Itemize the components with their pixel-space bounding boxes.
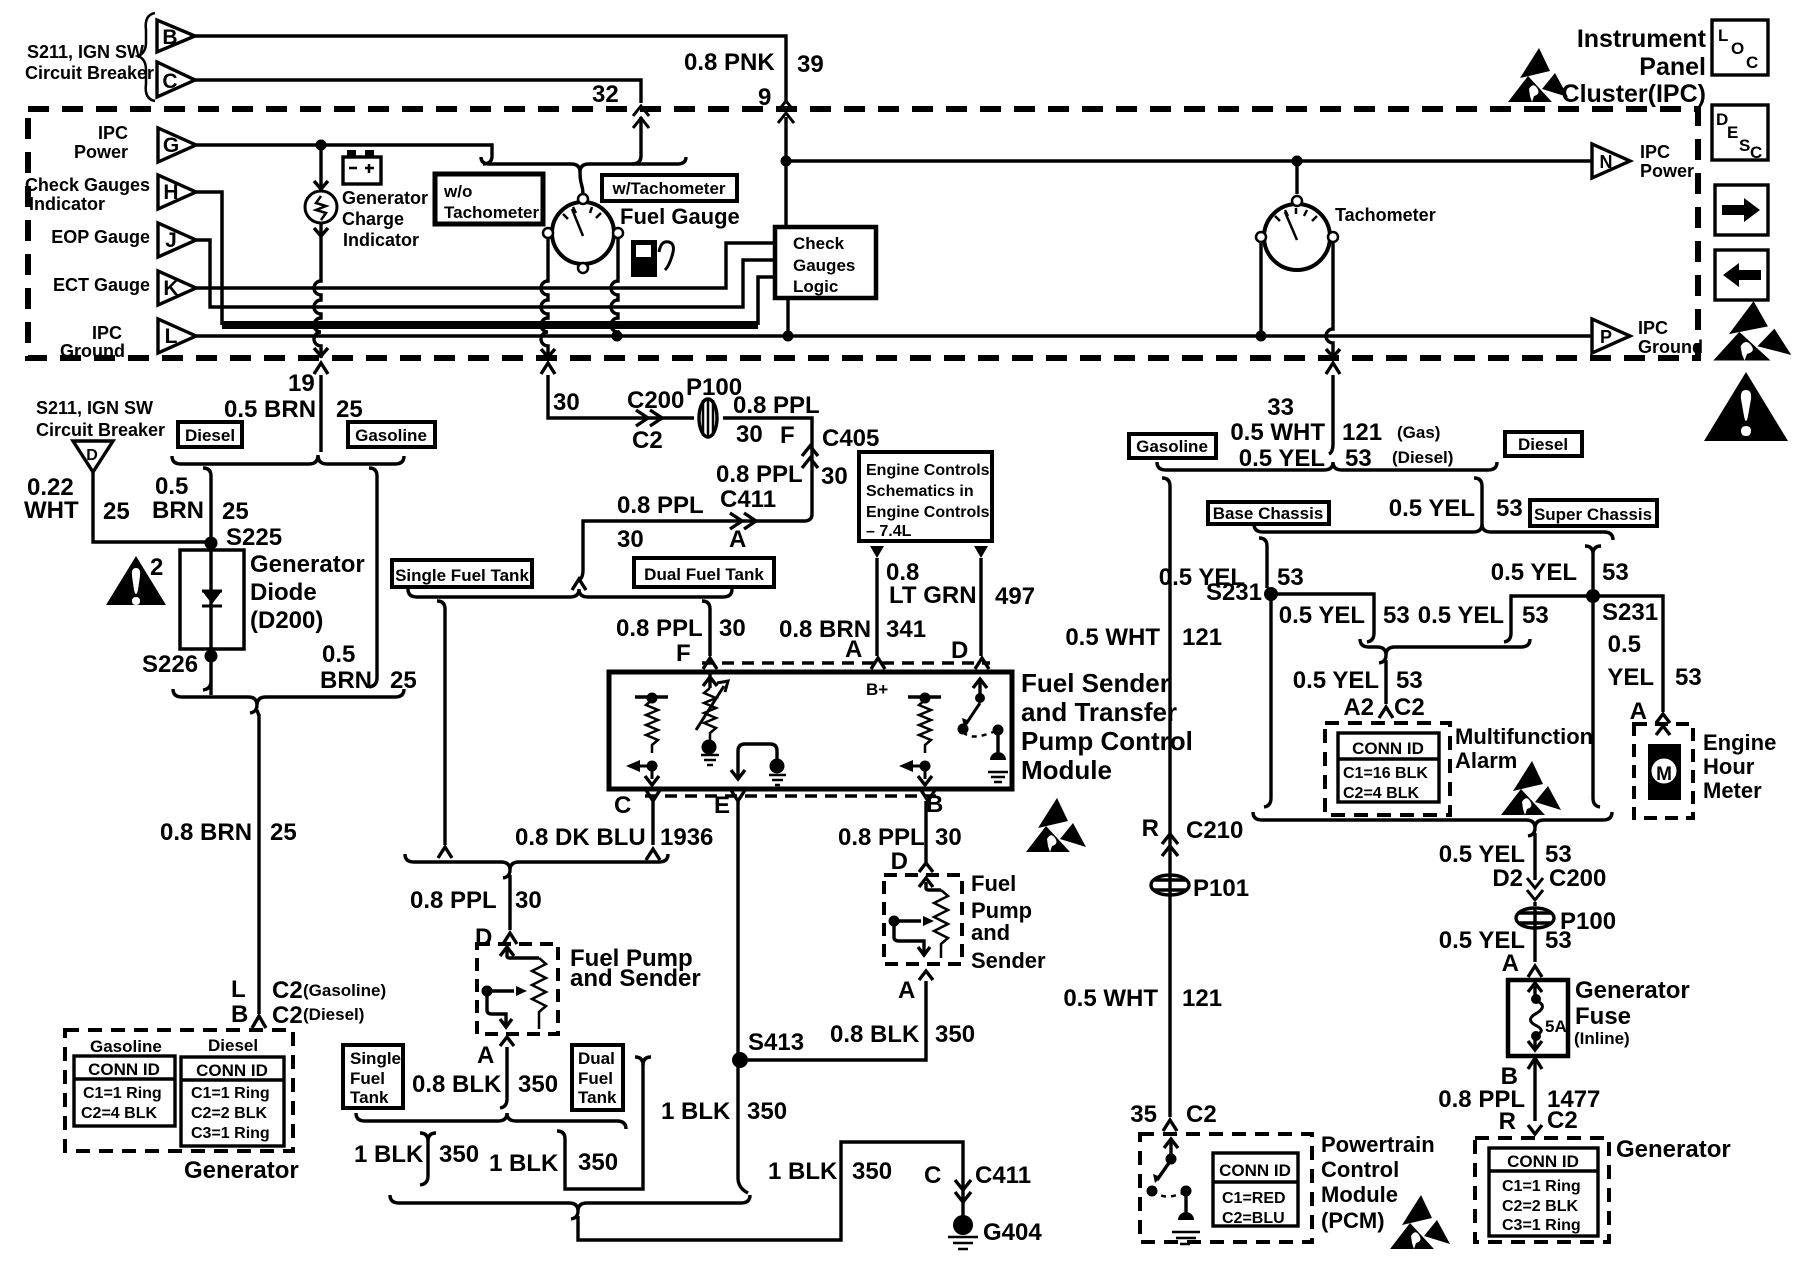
svg-text:S225: S225 bbox=[226, 524, 282, 551]
svg-text:30: 30 bbox=[553, 389, 580, 416]
svg-text:C2=4 BLK: C2=4 BLK bbox=[1343, 785, 1419, 802]
svg-text:Diesel: Diesel bbox=[185, 426, 235, 445]
svg-text:32: 32 bbox=[592, 81, 619, 108]
svg-text:Schematics in: Schematics in bbox=[866, 483, 974, 500]
svg-text:F: F bbox=[676, 640, 691, 667]
svg-text:0.5 YEL: 0.5 YEL bbox=[1239, 445, 1325, 472]
svg-text:C2=4 BLK: C2=4 BLK bbox=[81, 1105, 157, 1122]
svg-text:19: 19 bbox=[288, 370, 315, 397]
svg-text:(D200): (D200) bbox=[250, 607, 323, 634]
svg-text:121: 121 bbox=[1342, 419, 1382, 446]
svg-text:53: 53 bbox=[1545, 927, 1572, 954]
svg-text:Module: Module bbox=[1321, 1182, 1398, 1207]
svg-text:C200: C200 bbox=[1549, 865, 1606, 892]
svg-text:K: K bbox=[163, 277, 178, 300]
svg-text:30: 30 bbox=[736, 421, 763, 448]
svg-text:IPC: IPC bbox=[1640, 142, 1670, 162]
svg-text:0.8 BRN: 0.8 BRN bbox=[160, 819, 252, 846]
svg-text:Dual Fuel Tank: Dual Fuel Tank bbox=[644, 565, 764, 584]
svg-text:C210: C210 bbox=[1186, 817, 1243, 844]
svg-text:350: 350 bbox=[578, 1149, 618, 1176]
svg-text:C2: C2 bbox=[1394, 694, 1425, 721]
svg-text:0.8 PPL: 0.8 PPL bbox=[838, 824, 925, 851]
svg-text:C2: C2 bbox=[1547, 1107, 1578, 1134]
svg-text:Tachometer: Tachometer bbox=[1335, 205, 1436, 225]
svg-text:0.5 YEL: 0.5 YEL bbox=[1491, 559, 1577, 586]
svg-text:0.8 PPL: 0.8 PPL bbox=[716, 461, 803, 488]
svg-text:0.5: 0.5 bbox=[322, 641, 355, 668]
svg-text:121: 121 bbox=[1182, 985, 1222, 1012]
svg-text:C: C bbox=[1746, 53, 1758, 72]
svg-text:E: E bbox=[714, 792, 730, 819]
svg-text:CONN ID: CONN ID bbox=[1507, 1152, 1579, 1171]
svg-text:0.5 YEL: 0.5 YEL bbox=[1293, 667, 1379, 694]
svg-text:G404: G404 bbox=[983, 1219, 1042, 1246]
svg-text:Alarm: Alarm bbox=[1455, 748, 1517, 773]
svg-text:S: S bbox=[1739, 136, 1750, 155]
svg-text:Module: Module bbox=[1021, 755, 1112, 785]
svg-text:B: B bbox=[162, 26, 177, 49]
svg-text:S211, IGN SW: S211, IGN SW bbox=[27, 42, 144, 62]
svg-text:(Gasoline): (Gasoline) bbox=[303, 981, 386, 1000]
svg-text:BRN: BRN bbox=[152, 497, 204, 524]
svg-text:Gasoline: Gasoline bbox=[355, 426, 427, 445]
svg-text:Ground: Ground bbox=[1638, 337, 1703, 357]
svg-text:A: A bbox=[845, 636, 862, 663]
svg-text:C2=2 BLK: C2=2 BLK bbox=[1502, 1198, 1578, 1215]
svg-text:P: P bbox=[1600, 327, 1612, 347]
svg-text:ECT Gauge: ECT Gauge bbox=[53, 275, 150, 295]
svg-text:Cluster(IPC): Cluster(IPC) bbox=[1562, 80, 1706, 108]
svg-text:25: 25 bbox=[336, 396, 363, 423]
svg-text:Diesel: Diesel bbox=[1518, 435, 1568, 454]
svg-text:A: A bbox=[729, 526, 746, 553]
svg-text:Single Fuel Tank: Single Fuel Tank bbox=[395, 566, 529, 585]
svg-text:53: 53 bbox=[1522, 602, 1549, 629]
svg-text:C: C bbox=[162, 70, 177, 93]
svg-text:53: 53 bbox=[1602, 559, 1629, 586]
svg-text:S226: S226 bbox=[142, 651, 198, 678]
svg-text:Charge: Charge bbox=[342, 209, 404, 229]
svg-text:Indicator: Indicator bbox=[343, 230, 419, 250]
svg-text:C: C bbox=[924, 1162, 941, 1189]
svg-text:1 BLK: 1 BLK bbox=[661, 1098, 731, 1125]
svg-text:C: C bbox=[614, 792, 631, 819]
svg-text:1936: 1936 bbox=[660, 824, 713, 851]
svg-text:C1=1 Ring: C1=1 Ring bbox=[191, 1085, 270, 1102]
svg-text:Dual: Dual bbox=[578, 1049, 615, 1068]
svg-text:IPC: IPC bbox=[1638, 318, 1668, 338]
svg-text:C2: C2 bbox=[632, 427, 663, 454]
svg-text:C411: C411 bbox=[975, 1162, 1031, 1189]
svg-text:C1=RED: C1=RED bbox=[1222, 1190, 1286, 1207]
svg-text:Generator: Generator bbox=[342, 188, 428, 208]
svg-text:F: F bbox=[780, 422, 795, 449]
svg-text:S211, IGN SW: S211, IGN SW bbox=[36, 398, 153, 418]
svg-text:S231: S231 bbox=[1206, 579, 1262, 606]
svg-text:Logic: Logic bbox=[793, 277, 838, 296]
svg-text:Ground: Ground bbox=[60, 341, 125, 361]
svg-text:CONN ID: CONN ID bbox=[1219, 1161, 1291, 1180]
svg-text:Fuel Gauge: Fuel Gauge bbox=[620, 204, 740, 229]
svg-text:0.8 PPL: 0.8 PPL bbox=[410, 887, 497, 914]
svg-text:Check: Check bbox=[793, 234, 845, 253]
svg-text:P101: P101 bbox=[1193, 875, 1249, 902]
svg-text:(Gas): (Gas) bbox=[1397, 423, 1440, 442]
svg-text:(Diesel): (Diesel) bbox=[303, 1005, 364, 1024]
svg-text:0.8 PPL: 0.8 PPL bbox=[616, 615, 703, 642]
svg-text:E: E bbox=[1727, 123, 1738, 142]
svg-text:Diesel: Diesel bbox=[208, 1036, 258, 1055]
svg-text:Power: Power bbox=[1640, 161, 1694, 181]
svg-text:35: 35 bbox=[1130, 1101, 1157, 1128]
svg-text:30: 30 bbox=[935, 824, 962, 851]
svg-text:Circuit Breaker: Circuit Breaker bbox=[36, 420, 165, 440]
svg-text:0.8 PPL: 0.8 PPL bbox=[617, 492, 704, 519]
svg-text:497: 497 bbox=[995, 583, 1035, 610]
svg-text:0.5 YEL: 0.5 YEL bbox=[1279, 602, 1365, 629]
svg-text:R: R bbox=[1142, 815, 1159, 842]
svg-text:D: D bbox=[891, 848, 908, 875]
svg-text:H: H bbox=[163, 181, 178, 204]
svg-text:25: 25 bbox=[270, 819, 297, 846]
svg-text:53: 53 bbox=[1496, 495, 1523, 522]
svg-text:53: 53 bbox=[1675, 664, 1702, 691]
svg-text:C1=1 Ring: C1=1 Ring bbox=[83, 1085, 162, 1102]
svg-text:B: B bbox=[926, 791, 943, 818]
svg-text:30: 30 bbox=[515, 887, 542, 914]
svg-text:G: G bbox=[163, 134, 179, 157]
svg-text:30: 30 bbox=[617, 526, 644, 553]
svg-text:L: L bbox=[1718, 26, 1728, 45]
svg-text:0.5 BRN: 0.5 BRN bbox=[224, 396, 316, 423]
svg-text:S413: S413 bbox=[748, 1029, 804, 1056]
svg-text:350: 350 bbox=[852, 1158, 892, 1185]
svg-text:0.8 DK BLU: 0.8 DK BLU bbox=[515, 824, 646, 851]
svg-text:0.5 WHT: 0.5 WHT bbox=[1063, 985, 1158, 1012]
svg-text:C200: C200 bbox=[627, 387, 684, 414]
svg-text:C2: C2 bbox=[272, 1002, 303, 1029]
svg-text:350: 350 bbox=[747, 1098, 787, 1125]
svg-text:C1=1 Ring: C1=1 Ring bbox=[1502, 1178, 1581, 1195]
svg-text:S231: S231 bbox=[1602, 599, 1658, 626]
svg-text:Generator: Generator bbox=[1616, 1136, 1731, 1163]
svg-text:25: 25 bbox=[390, 667, 417, 694]
svg-text:Engine: Engine bbox=[1703, 730, 1776, 755]
svg-text:53: 53 bbox=[1277, 564, 1304, 591]
svg-text:1 BLK: 1 BLK bbox=[489, 1150, 559, 1177]
svg-text:w/Tachometer: w/Tachometer bbox=[611, 179, 725, 198]
svg-text:A: A bbox=[477, 1042, 494, 1069]
svg-text:0.5 WHT: 0.5 WHT bbox=[1230, 419, 1325, 446]
svg-text:(Diesel): (Diesel) bbox=[1392, 448, 1453, 467]
svg-text:Generator: Generator bbox=[1575, 977, 1690, 1004]
svg-text:C3=1 Ring: C3=1 Ring bbox=[191, 1125, 270, 1142]
svg-text:EOP Gauge: EOP Gauge bbox=[51, 227, 150, 247]
svg-text:53: 53 bbox=[1383, 602, 1410, 629]
svg-text:Indicator: Indicator bbox=[29, 194, 105, 214]
svg-text:53: 53 bbox=[1345, 445, 1372, 472]
svg-text:C1=16 BLK: C1=16 BLK bbox=[1343, 765, 1428, 782]
svg-text:0.5 YEL: 0.5 YEL bbox=[1418, 602, 1504, 629]
svg-text:30: 30 bbox=[821, 463, 848, 490]
svg-text:A: A bbox=[1502, 950, 1519, 977]
svg-text:BRN: BRN bbox=[320, 667, 372, 694]
svg-text:Generator: Generator bbox=[250, 551, 365, 578]
svg-text:C405: C405 bbox=[822, 425, 879, 452]
svg-text:Hour: Hour bbox=[1703, 754, 1755, 779]
svg-text:350: 350 bbox=[518, 1071, 558, 1098]
svg-text:N: N bbox=[1600, 152, 1613, 172]
svg-text:w/o: w/o bbox=[443, 182, 472, 201]
svg-text:Fuel: Fuel bbox=[578, 1069, 613, 1088]
svg-text:53: 53 bbox=[1545, 841, 1572, 868]
svg-text:53: 53 bbox=[1396, 667, 1423, 694]
svg-text:350: 350 bbox=[439, 1141, 479, 1168]
svg-text:– 7.4L: – 7.4L bbox=[866, 523, 912, 540]
svg-text:J: J bbox=[165, 229, 177, 252]
svg-text:IPC: IPC bbox=[92, 323, 122, 343]
svg-text:Super Chassis: Super Chassis bbox=[1534, 505, 1652, 524]
svg-text:C2: C2 bbox=[1186, 1101, 1217, 1128]
svg-text:CONN ID: CONN ID bbox=[1352, 739, 1424, 758]
svg-text:Tachometer: Tachometer bbox=[444, 203, 539, 222]
svg-text:L: L bbox=[165, 325, 178, 348]
svg-text:C3=1 Ring: C3=1 Ring bbox=[1502, 1217, 1581, 1234]
svg-text:and Transfer: and Transfer bbox=[1021, 697, 1177, 727]
svg-text:350: 350 bbox=[935, 1021, 975, 1048]
svg-text:0.5 YEL: 0.5 YEL bbox=[1389, 495, 1475, 522]
svg-text:D: D bbox=[86, 447, 98, 464]
svg-text:Circuit Breaker: Circuit Breaker bbox=[25, 63, 154, 83]
svg-text:Panel: Panel bbox=[1639, 53, 1706, 81]
svg-text:Base Chassis: Base Chassis bbox=[1213, 504, 1324, 523]
svg-text:A2: A2 bbox=[1343, 694, 1374, 721]
svg-text:0.8 BLK: 0.8 BLK bbox=[412, 1071, 502, 1098]
svg-text:0.5 YEL: 0.5 YEL bbox=[1439, 841, 1525, 868]
svg-text:0.8 PNK: 0.8 PNK bbox=[684, 49, 775, 76]
svg-text:CONN ID: CONN ID bbox=[88, 1060, 160, 1079]
svg-text:(Inline): (Inline) bbox=[1574, 1029, 1630, 1048]
svg-text:25: 25 bbox=[103, 498, 130, 525]
svg-text:341: 341 bbox=[886, 616, 926, 643]
svg-text:0.5: 0.5 bbox=[155, 473, 188, 500]
svg-text:and: and bbox=[971, 920, 1010, 945]
svg-text:WHT: WHT bbox=[24, 497, 79, 524]
svg-text:(PCM): (PCM) bbox=[1321, 1208, 1385, 1233]
svg-text:CONN ID: CONN ID bbox=[196, 1061, 268, 1080]
svg-text:C2: C2 bbox=[272, 977, 303, 1004]
svg-text:Fuel Sender: Fuel Sender bbox=[1021, 668, 1170, 698]
svg-text:Tank: Tank bbox=[578, 1088, 617, 1107]
svg-text:Power: Power bbox=[74, 142, 128, 162]
svg-text:B: B bbox=[231, 1001, 248, 1028]
svg-text:30: 30 bbox=[719, 615, 746, 642]
svg-text:and Sender: and Sender bbox=[570, 965, 701, 992]
svg-text:33: 33 bbox=[1267, 394, 1294, 421]
svg-text:Sender: Sender bbox=[971, 948, 1046, 973]
svg-text:Control: Control bbox=[1321, 1157, 1399, 1182]
svg-text:Fuel: Fuel bbox=[350, 1069, 385, 1088]
svg-text:R: R bbox=[1499, 1108, 1516, 1135]
svg-text:Generator: Generator bbox=[184, 1157, 299, 1184]
svg-text:A: A bbox=[898, 977, 915, 1004]
svg-text:Fuel: Fuel bbox=[971, 871, 1016, 896]
svg-text:39: 39 bbox=[797, 51, 824, 78]
svg-text:C411: C411 bbox=[720, 486, 776, 513]
svg-text:1 BLK: 1 BLK bbox=[768, 1158, 838, 1185]
svg-text:25: 25 bbox=[222, 498, 249, 525]
svg-text:Pump Control: Pump Control bbox=[1021, 726, 1193, 756]
svg-text:C2=BLU: C2=BLU bbox=[1222, 1210, 1285, 1227]
svg-text:Instrument: Instrument bbox=[1577, 25, 1707, 53]
svg-text:0.8 BLK: 0.8 BLK bbox=[830, 1021, 920, 1048]
svg-text:LT GRN: LT GRN bbox=[889, 582, 977, 609]
svg-text:0.5 WHT: 0.5 WHT bbox=[1065, 624, 1160, 651]
svg-text:1 BLK: 1 BLK bbox=[354, 1141, 424, 1168]
svg-text:Powertrain: Powertrain bbox=[1321, 1132, 1435, 1157]
svg-text:A: A bbox=[1630, 698, 1647, 725]
svg-text:5A: 5A bbox=[1545, 1017, 1567, 1036]
svg-text:D2: D2 bbox=[1492, 865, 1523, 892]
svg-text:Engine Controls: Engine Controls bbox=[866, 504, 990, 521]
svg-text:YEL: YEL bbox=[1607, 664, 1654, 691]
svg-text:Fuse: Fuse bbox=[1575, 1003, 1631, 1030]
svg-text:Meter: Meter bbox=[1703, 778, 1762, 803]
svg-text:Gasoline: Gasoline bbox=[1136, 437, 1208, 456]
svg-text:2: 2 bbox=[150, 554, 163, 581]
svg-text:0.5: 0.5 bbox=[1608, 631, 1641, 658]
svg-text:L: L bbox=[231, 976, 246, 1003]
svg-text:B+: B+ bbox=[866, 680, 888, 699]
svg-text:Single: Single bbox=[350, 1049, 401, 1068]
svg-text:Multifunction: Multifunction bbox=[1455, 724, 1593, 749]
svg-text:0.8 PPL: 0.8 PPL bbox=[733, 392, 820, 419]
svg-text:Diode: Diode bbox=[250, 579, 317, 606]
svg-text:Engine Controls: Engine Controls bbox=[866, 462, 990, 479]
svg-text:Gauges: Gauges bbox=[793, 256, 855, 275]
svg-text:M: M bbox=[1656, 764, 1672, 785]
svg-text:O: O bbox=[1731, 39, 1744, 58]
svg-text:C: C bbox=[1750, 143, 1762, 162]
svg-text:Tank: Tank bbox=[350, 1088, 389, 1107]
svg-text:C2=2 BLK: C2=2 BLK bbox=[191, 1105, 267, 1122]
svg-text:D: D bbox=[951, 637, 968, 664]
svg-text:Gasoline: Gasoline bbox=[90, 1037, 162, 1056]
svg-text:IPC: IPC bbox=[98, 123, 128, 143]
svg-text:Check Gauges: Check Gauges bbox=[25, 175, 150, 195]
svg-text:121: 121 bbox=[1182, 624, 1222, 651]
